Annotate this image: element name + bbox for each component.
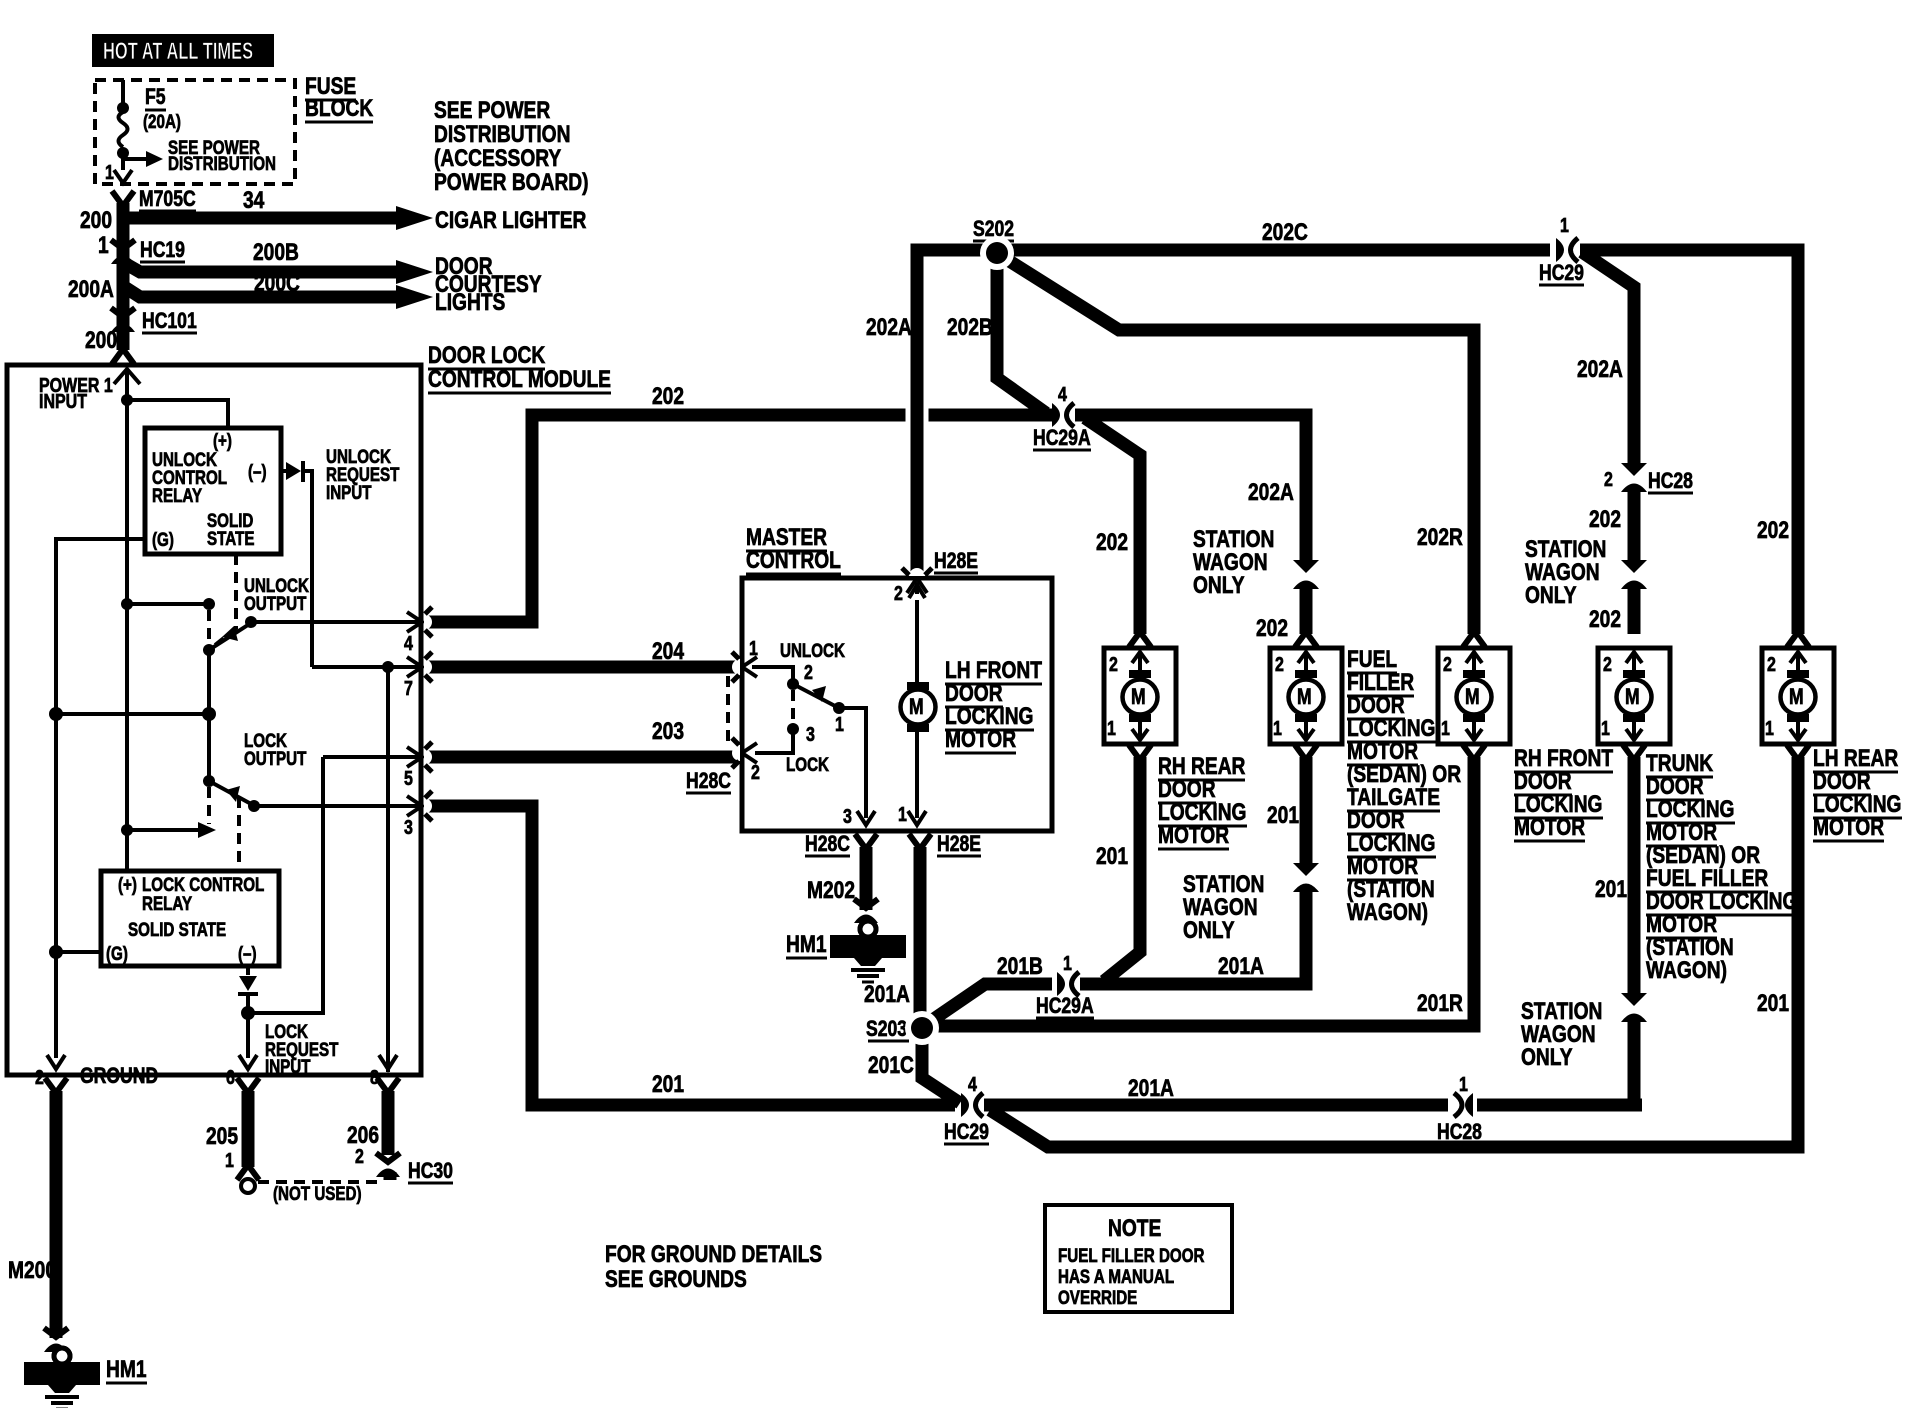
svg-text:INPUT: INPUT: [265, 1055, 311, 1077]
svg-text:1: 1: [98, 231, 109, 259]
svg-text:M705C: M705C: [139, 187, 196, 211]
svg-text:HC30: HC30: [408, 1159, 453, 1183]
svg-text:1: 1: [1459, 1073, 1468, 1095]
pin 1 connector (master control): [732, 652, 757, 682]
svg-text:MOTOR: MOTOR: [945, 725, 1016, 753]
diode lock request input, wires to pin 5 and pin 6: [246, 966, 250, 975]
svg-text:FOR GROUND DETAILS: FOR GROUND DETAILS: [605, 1240, 822, 1268]
svg-text:ONLY: ONLY: [1525, 581, 1577, 609]
splice connector (201, station wagon only): [1293, 863, 1319, 892]
svg-text:202A: 202A: [1248, 478, 1294, 506]
svg-text:2: 2: [894, 582, 903, 604]
svg-text:8: 8: [370, 1066, 379, 1088]
motor M RH rear door locking motor: [1104, 648, 1176, 744]
connector HC101: [111, 308, 135, 332]
switch unlock relay contact and unlock output to pin 4: [127, 602, 209, 606]
svg-text:H28E: H28E: [937, 832, 981, 856]
svg-text:1: 1: [1063, 952, 1072, 974]
svg-text:HC28: HC28: [1648, 469, 1693, 493]
svg-text:S203: S203: [866, 1017, 907, 1041]
connector HC19 pin 1: [111, 240, 135, 264]
svg-text:HOT AT ALL TIMES: HOT AT ALL TIMES: [103, 38, 253, 65]
switch lock relay contact and lock output to pin 3: [203, 775, 215, 787]
svg-text:POWER BOARD): POWER BOARD): [434, 168, 589, 196]
splice connector (202, station wagon only): [1621, 560, 1647, 589]
connector HC29A pin 1 (bottom): [1057, 972, 1079, 996]
svg-text:ONLY: ONLY: [1521, 1043, 1573, 1071]
svg-text:203: 203: [652, 717, 684, 745]
pin 4 connector (module): [407, 607, 432, 637]
svg-text:201A: 201A: [864, 980, 910, 1008]
svg-text:2: 2: [355, 1145, 364, 1167]
note box NOTE: FUEL FILLER DOOR HAS A MANUAL OVERRIDE: [1045, 1205, 1232, 1312]
pin 5 connector (module): [407, 742, 432, 772]
svg-text:OUTPUT: OUTPUT: [244, 592, 307, 614]
svg-text:RELAY: RELAY: [152, 484, 203, 506]
svg-text:1: 1: [835, 713, 844, 735]
svg-text:H28E: H28E: [934, 549, 978, 573]
svg-text:MOTOR: MOTOR: [1514, 813, 1585, 841]
svg-text:202: 202: [1757, 516, 1789, 544]
connector HC29A pin 4: [1052, 403, 1074, 427]
wire 202R from S202 to RH front motor: [1003, 257, 1474, 634]
svg-text:OUTPUT: OUTPUT: [244, 747, 307, 769]
motor M RH front door locking motor: [1438, 648, 1510, 744]
svg-text:200C: 200C: [254, 269, 300, 297]
svg-text:RELAY: RELAY: [142, 892, 193, 914]
svg-text:6: 6: [226, 1066, 235, 1088]
motor M LH front door locking motor (in master control): [915, 600, 919, 683]
svg-text:201C: 201C: [868, 1051, 914, 1079]
svg-text:INPUT: INPUT: [326, 481, 372, 503]
svg-text:1: 1: [749, 637, 758, 659]
svg-text:HM1: HM1: [786, 930, 827, 958]
svg-text:202B: 202B: [947, 313, 993, 341]
svg-text:HC29: HC29: [944, 1120, 989, 1144]
svg-text:34: 34: [243, 186, 264, 214]
switch assembly MASTER CONTROL enclosure: [742, 578, 1052, 831]
svg-text:201: 201: [1757, 989, 1789, 1017]
svg-text:202: 202: [1096, 528, 1128, 556]
svg-text:201: 201: [1096, 842, 1128, 870]
fuse block enclosure (dashed): [95, 80, 295, 184]
svg-text:201B: 201B: [997, 952, 1043, 980]
svg-text:4: 4: [968, 1073, 977, 1095]
svg-text:M200: M200: [8, 1256, 56, 1284]
svg-text:GROUND: GROUND: [80, 1064, 158, 1088]
motor M LH rear door locking motor: [1762, 648, 1834, 744]
svg-text:3: 3: [806, 723, 815, 745]
connector HC29 pin 4 (bottom): [961, 1093, 983, 1117]
svg-text:HC29A: HC29A: [1036, 994, 1094, 1018]
motor M trunk / fuel filler door locking motor: [1598, 648, 1670, 744]
svg-text:2: 2: [1604, 468, 1613, 490]
svg-text:201R: 201R: [1417, 989, 1463, 1017]
pin 3 connector (module): [407, 791, 432, 821]
svg-text:H28C: H28C: [805, 832, 850, 856]
svg-text:2: 2: [751, 761, 760, 783]
svg-text:MOTOR: MOTOR: [1158, 821, 1229, 849]
fuse F5 (20A) with feed wire and junction dots: [121, 80, 125, 104]
svg-text:NOTE: NOTE: [1108, 1214, 1161, 1242]
svg-text:LOCK: LOCK: [786, 753, 830, 775]
connector HC29 pin 1: [1556, 238, 1578, 262]
wire 202A branch through HC28 pin 2 to trunk motor: [1582, 252, 1634, 465]
svg-text:SEE GROUNDS: SEE GROUNDS: [605, 1265, 747, 1293]
wire 201 bottom bus to LH rear motor: [990, 757, 1798, 1147]
svg-text:FUEL FILLER DOOR: FUEL FILLER DOOR: [1058, 1244, 1205, 1266]
svg-text:SOLID STATE: SOLID STATE: [128, 918, 226, 940]
svg-text:OVERRIDE: OVERRIDE: [1058, 1286, 1137, 1308]
wire 200 main feed into module: [117, 203, 130, 350]
wire 34 arrow to CIGAR LIGHTER: [126, 212, 398, 225]
pins 2 GROUND, 6, 8 (module bottom edge): [47, 1055, 65, 1069]
wire switch common to master pin 3: [839, 708, 866, 818]
svg-text:5: 5: [404, 767, 413, 789]
svg-text:CONTROL MODULE: CONTROL MODULE: [428, 365, 611, 393]
svg-text:202A: 202A: [1577, 355, 1623, 383]
svg-text:202A: 202A: [866, 313, 912, 341]
svg-text:1: 1: [225, 1149, 234, 1171]
svg-text:201: 201: [1267, 801, 1299, 829]
svg-text:WAGON): WAGON): [1646, 956, 1727, 984]
svg-text:ONLY: ONLY: [1193, 571, 1245, 599]
svg-text:H28C: H28C: [686, 769, 731, 793]
wire 202B to connector HC29A pin 4: [997, 250, 1046, 413]
wire 205 (pin 6, not used): [237, 1078, 259, 1093]
svg-text:M202: M202: [807, 876, 855, 904]
svg-text:LIGHTS: LIGHTS: [435, 288, 505, 316]
wire 201 trunk motor return: [1628, 757, 1641, 995]
wire 201C from S203 to connector HC29: [922, 1038, 960, 1103]
svg-text:2: 2: [804, 661, 813, 683]
svg-text:HM1: HM1: [106, 1355, 147, 1383]
connector HC28 pin 1 (bottom): [1454, 1093, 1473, 1117]
svg-text:200A: 200A: [68, 275, 114, 303]
wire ground (G) rail to pin 2: [56, 539, 145, 1058]
svg-text:202: 202: [1589, 605, 1621, 633]
pin 7 connector (module): [407, 652, 432, 682]
svg-text:201A: 201A: [1218, 952, 1264, 980]
svg-text:4: 4: [404, 632, 413, 654]
ground HM1 (left, M200): [44, 1328, 68, 1352]
wire 206 (pin 8) to HC30: [377, 1078, 399, 1093]
svg-text:F5: F5: [145, 85, 166, 109]
wire unlock request input to pin 7, junction to pin 8: [312, 665, 421, 669]
svg-text:WAGON): WAGON): [1347, 898, 1428, 926]
svg-text:202: 202: [1589, 505, 1621, 533]
svg-text:1: 1: [105, 161, 114, 183]
svg-text:202C: 202C: [1262, 218, 1308, 246]
svg-text:202: 202: [1256, 614, 1288, 642]
svg-text:BLOCK: BLOCK: [305, 94, 373, 122]
svg-text:HAS A MANUAL: HAS A MANUAL: [1058, 1265, 1174, 1287]
svg-text:(G): (G): [106, 942, 128, 964]
svg-text:202: 202: [652, 382, 684, 410]
wire 201R from S203 to RH front motor: [932, 757, 1474, 1026]
svg-text:ONLY: ONLY: [1183, 916, 1235, 944]
wire switch common column with junction dots: [207, 650, 211, 781]
svg-text:(–): (–): [238, 942, 257, 964]
wire M200 ground: [45, 1078, 67, 1093]
svg-text:HC29: HC29: [1539, 261, 1584, 285]
splice connector (201, trunk, station wagon only): [1621, 993, 1647, 1022]
svg-text:(–): (–): [248, 460, 267, 482]
svg-text:(NOT USED): (NOT USED): [273, 1182, 362, 1204]
wire 201 from module pin 3 to connector HC29 pin 4: [424, 806, 955, 1105]
motor bottom fork connectors: [1129, 745, 1151, 760]
svg-text:(+): (+): [118, 873, 137, 895]
connectors H28C and H28E below master control: [855, 834, 877, 849]
wire 200C arrow to door courtesy lights: [126, 288, 398, 297]
svg-text:STATE: STATE: [207, 527, 255, 549]
svg-text:3: 3: [843, 805, 852, 827]
svg-text:200: 200: [80, 206, 112, 234]
svg-text:201: 201: [1595, 875, 1627, 903]
pin 2 connector (master control): [732, 738, 757, 768]
relay lock control relay (solid state): [101, 871, 279, 966]
svg-text:CIGAR LIGHTER: CIGAR LIGHTER: [435, 206, 587, 234]
switch master control unlock/lock with contacts 1 2 3: [752, 667, 793, 680]
label HOT AT ALL TIMES: [92, 34, 274, 67]
svg-text:200B: 200B: [253, 238, 299, 266]
wire HC30 dashed (NOT USED) link: [258, 1180, 380, 1184]
module DOOR LOCK CONTROL MODULE enclosure: [7, 365, 421, 1075]
svg-text:200: 200: [85, 326, 117, 354]
svg-text:HC101: HC101: [142, 309, 197, 333]
wire 201A from HC29 to HC28 pin 1: [984, 1099, 1448, 1112]
ground HM1 (M202, below master control): [854, 899, 878, 923]
svg-text:(20A): (20A): [143, 110, 181, 132]
connector M705C: [112, 191, 134, 206]
connector HC28 pin 2: [1621, 463, 1647, 492]
svg-text:3: 3: [404, 816, 413, 838]
svg-text:4: 4: [1058, 383, 1067, 405]
svg-text:UNLOCK: UNLOCK: [780, 639, 845, 661]
relay unlock control relay (solid state): [145, 428, 281, 554]
diode unlock request input, wire to pin 7: [281, 469, 286, 473]
pin 2 connector H28E (master control top): [902, 568, 932, 593]
svg-text:7: 7: [404, 677, 413, 699]
svg-text:201A: 201A: [1128, 1074, 1174, 1102]
svg-text:HC29A: HC29A: [1033, 426, 1091, 450]
svg-text:M: M: [909, 695, 924, 719]
wire 202C to connector HC29 pin 1: [997, 244, 1550, 257]
svg-text:HC19: HC19: [140, 238, 185, 262]
svg-text:201: 201: [652, 1070, 684, 1098]
svg-text:(G): (G): [152, 528, 174, 550]
wire 200B arrow to door courtesy lights: [126, 264, 398, 272]
svg-text:202R: 202R: [1417, 523, 1463, 551]
svg-text:1: 1: [898, 803, 907, 825]
wire 202 from module pin 4 to HC29A: [424, 415, 1052, 622]
svg-text:MOTOR: MOTOR: [1813, 813, 1884, 841]
svg-text:DISTRIBUTION: DISTRIBUTION: [168, 152, 276, 174]
splice connector (202A, station wagon only): [1293, 560, 1319, 589]
svg-text:CONTROL: CONTROL: [746, 546, 841, 574]
svg-text:205: 205: [206, 1122, 238, 1150]
svg-text:INPUT: INPUT: [39, 390, 87, 412]
wire 202 branches from HC29A to RH rear and fuel filler motors: [1075, 415, 1306, 560]
svg-text:1: 1: [1560, 214, 1569, 236]
svg-text:2: 2: [35, 1066, 44, 1088]
wire power 1 input rail with junction dots: [114, 369, 140, 384]
wire 201B from S203 to connector HC29A pin 1: [928, 984, 1052, 1023]
motor M fuel filler / tailgate door locking motor: [1270, 648, 1342, 744]
svg-text:204: 204: [652, 637, 684, 665]
